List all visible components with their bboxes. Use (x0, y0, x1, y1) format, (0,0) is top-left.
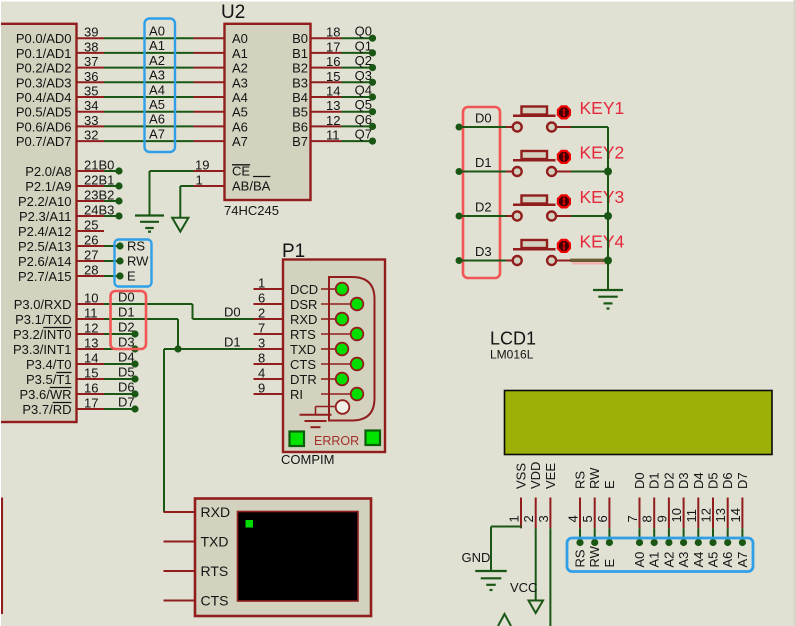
svg-text:2: 2 (521, 515, 536, 522)
svg-text:26: 26 (84, 233, 98, 248)
svg-text:1: 1 (507, 515, 522, 522)
svg-text:A0: A0 (232, 31, 248, 46)
svg-text:A6: A6 (232, 119, 248, 134)
svg-text:B4: B4 (292, 90, 308, 105)
svg-text:D6: D6 (720, 472, 735, 489)
svg-text:CTS: CTS (290, 357, 316, 372)
svg-text:RTS: RTS (201, 563, 229, 579)
svg-text:17: 17 (84, 396, 98, 411)
svg-text:P0.3/AD3: P0.3/AD3 (16, 75, 72, 90)
svg-text:E: E (602, 480, 617, 489)
svg-text:2: 2 (258, 306, 265, 321)
svg-text:16: 16 (84, 381, 98, 396)
svg-text:P3.4/T0: P3.4/T0 (26, 357, 72, 372)
svg-text:5: 5 (580, 515, 595, 522)
svg-text:Q1: Q1 (355, 38, 372, 53)
svg-text:12: 12 (326, 113, 340, 128)
svg-text:P0.1/AD1: P0.1/AD1 (16, 46, 72, 61)
svg-text:17: 17 (326, 39, 340, 54)
svg-text:D1: D1 (475, 155, 492, 170)
svg-text:B3: B3 (99, 203, 115, 218)
svg-text:D2: D2 (475, 200, 492, 215)
svg-text:E: E (127, 269, 136, 284)
svg-text:P3.7/RD: P3.7/RD (22, 402, 71, 417)
svg-text:P2.3/A11: P2.3/A11 (19, 209, 72, 224)
svg-text:37: 37 (84, 54, 98, 69)
svg-text:16: 16 (326, 54, 340, 69)
svg-text:14: 14 (84, 351, 98, 366)
svg-text:D0: D0 (632, 472, 647, 489)
svg-text:9: 9 (258, 381, 265, 396)
svg-text:P0.4/AD4: P0.4/AD4 (16, 90, 72, 105)
svg-text:33: 33 (84, 113, 98, 128)
svg-text:B5: B5 (292, 105, 308, 120)
svg-text:RW: RW (127, 254, 149, 269)
svg-text:P2.0/A8: P2.0/A8 (25, 164, 71, 179)
svg-text:A7: A7 (232, 134, 248, 149)
svg-text:A2: A2 (149, 53, 165, 68)
svg-text:A0: A0 (632, 552, 647, 568)
svg-text:19: 19 (195, 158, 209, 173)
svg-text:Q0: Q0 (355, 24, 372, 39)
svg-text:15: 15 (84, 366, 98, 381)
svg-text:CE: CE (232, 164, 250, 179)
svg-text:DSR: DSR (290, 297, 317, 312)
svg-text:23: 23 (84, 188, 98, 203)
svg-text:14: 14 (326, 84, 340, 99)
svg-text:RI: RI (290, 387, 303, 402)
svg-text:P0.7/AD7: P0.7/AD7 (16, 134, 72, 149)
svg-text:9: 9 (654, 515, 669, 522)
svg-text:P1: P1 (282, 241, 305, 262)
svg-text:1: 1 (258, 276, 265, 291)
svg-text:B1: B1 (99, 173, 115, 188)
svg-text:A2: A2 (232, 61, 248, 76)
svg-text:A3: A3 (676, 552, 691, 568)
svg-text:A3: A3 (232, 75, 248, 90)
svg-text:32: 32 (84, 128, 98, 143)
svg-text:35: 35 (84, 84, 98, 99)
svg-text:Q7: Q7 (355, 127, 372, 142)
svg-text:D5: D5 (706, 472, 721, 489)
svg-text:22: 22 (84, 173, 98, 188)
svg-text:P2.4/A12: P2.4/A12 (18, 224, 72, 239)
svg-text:KEY4: KEY4 (580, 231, 625, 251)
svg-text:14: 14 (728, 508, 743, 522)
svg-text:KEY1: KEY1 (580, 98, 625, 118)
svg-text:U2: U2 (221, 2, 245, 23)
svg-text:D7: D7 (735, 472, 750, 489)
svg-text:B6: B6 (292, 119, 308, 134)
svg-text:D1: D1 (224, 335, 241, 350)
svg-text:KEY2: KEY2 (580, 142, 625, 162)
svg-text:74HC245: 74HC245 (224, 203, 279, 218)
svg-text:A6: A6 (720, 552, 735, 568)
svg-text:DTR: DTR (290, 372, 317, 387)
svg-text:RTS: RTS (290, 327, 316, 342)
svg-text:P2.2/A10: P2.2/A10 (18, 194, 72, 209)
svg-text:4: 4 (258, 366, 265, 381)
svg-text:4: 4 (566, 515, 581, 522)
svg-text:VEE: VEE (543, 463, 558, 489)
svg-text:TXD: TXD (290, 342, 316, 357)
svg-text:CTS: CTS (201, 593, 229, 609)
svg-text:P3.5/T1: P3.5/T1 (26, 372, 72, 387)
svg-text:A7: A7 (149, 126, 165, 141)
svg-text:GND: GND (462, 550, 491, 565)
svg-text:B2: B2 (292, 61, 308, 76)
svg-text:B1: B1 (292, 46, 308, 61)
svg-text:RXD: RXD (290, 312, 317, 327)
svg-text:P3.3/INT1: P3.3/INT1 (13, 342, 72, 357)
svg-text:B0: B0 (292, 31, 308, 46)
svg-text:7: 7 (625, 515, 640, 522)
svg-text:Q2: Q2 (355, 53, 372, 68)
svg-text:P3.2/INT0: P3.2/INT0 (13, 327, 72, 342)
svg-text:28: 28 (84, 263, 98, 278)
svg-text:11: 11 (326, 128, 340, 143)
svg-text:A3: A3 (149, 68, 165, 83)
svg-text:13: 13 (326, 98, 340, 113)
svg-text:VCC: VCC (510, 580, 537, 595)
svg-text:RS: RS (127, 239, 145, 254)
svg-text:B0: B0 (99, 158, 115, 173)
svg-text:13: 13 (84, 336, 98, 351)
svg-text:AB/BA: AB/BA (232, 179, 271, 194)
svg-text:38: 38 (84, 39, 98, 54)
svg-text:P0.2/AD2: P0.2/AD2 (16, 61, 72, 76)
svg-text:Q4: Q4 (355, 83, 372, 98)
svg-text:DCD: DCD (290, 282, 318, 297)
svg-text:1: 1 (196, 173, 203, 188)
svg-text:P2.7/A15: P2.7/A15 (18, 269, 72, 284)
svg-text:24: 24 (84, 203, 98, 218)
svg-text:Q6: Q6 (355, 112, 372, 127)
svg-text:Q3: Q3 (355, 68, 372, 83)
svg-text:6: 6 (258, 291, 265, 306)
svg-text:A5: A5 (149, 97, 165, 112)
svg-text:Q5: Q5 (355, 97, 372, 112)
svg-text:11: 11 (684, 509, 699, 523)
svg-text:COMPIM: COMPIM (281, 452, 334, 467)
svg-text:P0.0/AD0: P0.0/AD0 (16, 31, 72, 46)
svg-text:B3: B3 (292, 75, 308, 90)
svg-text:11: 11 (84, 306, 98, 321)
svg-text:P2.1/A9: P2.1/A9 (25, 179, 71, 194)
svg-text:E: E (602, 559, 617, 568)
svg-text:P3.0/RXD: P3.0/RXD (14, 297, 72, 312)
svg-text:3: 3 (258, 336, 265, 351)
svg-text:21: 21 (84, 158, 98, 173)
svg-text:VSS: VSS (514, 463, 529, 489)
svg-text:D3: D3 (676, 472, 691, 489)
svg-text:TXD: TXD (201, 534, 229, 550)
svg-text:LM016L: LM016L (490, 348, 534, 362)
svg-text:P0.5/AD5: P0.5/AD5 (16, 105, 72, 120)
svg-text:D0: D0 (224, 305, 241, 320)
svg-text:RW: RW (587, 545, 602, 567)
svg-text:A1: A1 (647, 552, 662, 568)
svg-text:8: 8 (258, 351, 265, 366)
svg-text:KEY3: KEY3 (580, 187, 625, 207)
svg-text:7: 7 (258, 321, 265, 336)
svg-text:D0: D0 (475, 111, 492, 126)
svg-text:A4: A4 (149, 82, 165, 97)
svg-text:D2: D2 (661, 472, 676, 489)
svg-text:36: 36 (84, 69, 98, 84)
svg-text:RW: RW (587, 467, 602, 489)
svg-text:18: 18 (326, 25, 340, 40)
svg-text:A2: A2 (661, 552, 676, 568)
svg-text:ERROR: ERROR (314, 434, 359, 448)
svg-text:15: 15 (326, 69, 340, 84)
svg-text:10: 10 (669, 508, 684, 522)
svg-text:13: 13 (713, 508, 728, 522)
svg-text:27: 27 (84, 248, 98, 263)
svg-text:P3.6/WR: P3.6/WR (19, 387, 71, 402)
svg-text:D3: D3 (475, 244, 492, 259)
svg-text:A5: A5 (706, 552, 721, 568)
svg-text:RS: RS (573, 471, 588, 489)
svg-text:RS: RS (573, 549, 588, 567)
svg-text:A5: A5 (232, 105, 248, 120)
svg-text:A7: A7 (735, 552, 750, 568)
svg-text:34: 34 (84, 98, 98, 113)
svg-text:VDD: VDD (528, 462, 543, 489)
svg-text:P2.6/A14: P2.6/A14 (18, 254, 72, 269)
svg-text:A6: A6 (149, 112, 165, 127)
svg-text:12: 12 (84, 321, 98, 336)
svg-text:P3.1/TXD: P3.1/TXD (15, 312, 71, 327)
svg-text:D1: D1 (647, 472, 662, 489)
svg-text:B7: B7 (292, 134, 308, 149)
svg-text:3: 3 (536, 515, 551, 522)
svg-text:25: 25 (84, 218, 98, 233)
svg-text:A4: A4 (691, 552, 706, 568)
svg-text:A0: A0 (149, 24, 165, 39)
svg-text:39: 39 (84, 25, 98, 40)
svg-text:P0.6/AD6: P0.6/AD6 (16, 119, 72, 134)
svg-text:RXD: RXD (201, 504, 231, 520)
svg-text:6: 6 (595, 515, 610, 522)
svg-text:B2: B2 (99, 188, 115, 203)
svg-text:D4: D4 (691, 472, 706, 489)
svg-text:D1: D1 (118, 305, 135, 320)
svg-text:A1: A1 (149, 38, 165, 53)
svg-text:LCD1: LCD1 (490, 329, 536, 349)
svg-text:12: 12 (699, 508, 714, 522)
svg-text:A4: A4 (232, 90, 248, 105)
svg-text:10: 10 (84, 291, 98, 306)
svg-text:A1: A1 (232, 46, 248, 61)
svg-text:8: 8 (640, 515, 655, 522)
svg-text:P2.5/A13: P2.5/A13 (18, 239, 72, 254)
